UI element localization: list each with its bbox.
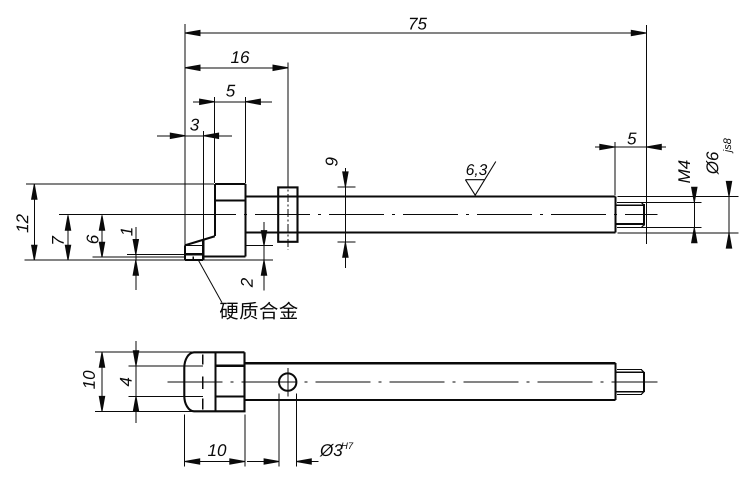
thread chamfer top — [641, 202, 644, 205]
surface finish symbol 6,3 — [465, 162, 495, 196]
text 5 thread — [627, 133, 636, 145]
disc Oe9 outline — [278, 187, 297, 241]
plan block edge top — [216, 365, 245, 367]
thread end face — [643, 204, 645, 225]
main shaft centerline — [181, 214, 658, 216]
thread major line bottom / M4 extension — [617, 227, 702, 229]
head body bottom edge — [203, 255, 245, 257]
text 6,3 roughness — [467, 164, 488, 177]
plan thread chamfer bottom — [641, 391, 644, 394]
extension line dim 2 top — [247, 245, 274, 247]
shaft top edge — [245, 195, 615, 197]
text 75 — [410, 18, 427, 30]
text diameter 6 js8 — [706, 152, 719, 175]
plan hidden insert edge dash 2 — [202, 377, 204, 390]
plan view head outline — [184, 352, 244, 411]
carbide insert middle tick — [192, 256, 194, 260]
dimension diameter 3 H7 — [247, 461, 279, 463]
plan ext head length left — [184, 415, 186, 467]
plan ext dim 10 bottom — [95, 410, 193, 412]
diameter 6 extension line top — [618, 195, 739, 197]
extension line dim 9 bottom — [338, 241, 356, 243]
foot left edge — [184, 245, 186, 260]
plan ext dim 4 bottom — [129, 395, 204, 397]
text 4 — [120, 378, 132, 387]
plan shaft bottom edge — [245, 399, 616, 401]
text M4 — [678, 160, 690, 182]
dimension 2 — [263, 222, 265, 291]
extension line insert top left — [127, 254, 185, 256]
foot top edge — [185, 244, 203, 246]
main shaft centerline solid lead — [59, 214, 181, 216]
dimension 3 — [157, 135, 232, 137]
extension line thread dim 5 left — [614, 142, 616, 195]
thread chamfer bottom — [641, 225, 644, 228]
text 16 — [231, 51, 249, 63]
head clamp block top edge — [215, 183, 246, 185]
text 10 plan height — [83, 371, 95, 389]
plan thread root top — [617, 371, 644, 373]
text 6 — [87, 235, 99, 244]
head right face — [244, 184, 246, 257]
diameter 6 extension line bottom — [618, 232, 739, 234]
plan ext dim 10 top — [95, 351, 193, 353]
plan ext hole right — [295, 394, 297, 467]
text diameter 3 H7 — [320, 444, 343, 457]
label: carbide (ying zhi he jin) — [220, 302, 298, 320]
dimension 12 — [33, 184, 35, 260]
foot right edge — [202, 240, 204, 260]
plan centerline — [168, 381, 658, 383]
dimension 10 head length — [185, 461, 245, 463]
plan ext dim 4 top — [129, 365, 204, 367]
disc vertical centerline — [287, 179, 289, 250]
plan head step edge — [215, 352, 217, 411]
extension line body bottom — [93, 256, 186, 258]
dimension 4 — [135, 341, 137, 423]
text 2 — [241, 278, 253, 287]
plan thread major bottom — [617, 394, 642, 396]
extension line dim 9 top — [338, 186, 356, 188]
extension line left datum x=185 — [184, 24, 186, 245]
text 12 — [16, 214, 28, 232]
plan thread root bottom — [617, 391, 644, 393]
plan thread chamfer top — [641, 370, 644, 373]
extension line 75 right — [645, 25, 647, 244]
dimension 5 (block) — [193, 101, 272, 103]
plan ext hole left — [278, 394, 280, 467]
text 1 — [121, 228, 133, 236]
plan thread major top — [617, 369, 642, 371]
extension line 16 right — [287, 63, 289, 180]
dimension 10 head width — [101, 352, 103, 411]
plan shaft shoulder — [615, 363, 617, 400]
dimension 6 — [101, 215, 103, 257]
leader line to carbide insert — [199, 261, 222, 303]
carbide insert top edge — [185, 253, 203, 255]
hole vertical centerline — [287, 368, 289, 396]
text 5 block — [226, 85, 235, 97]
head left edge — [214, 184, 216, 236]
dimension 75 — [185, 32, 646, 34]
thread root line top — [617, 204, 644, 206]
text 10 head length — [208, 444, 226, 456]
head chisel diagonal edge — [185, 236, 215, 245]
dimension M4 — [693, 188, 695, 243]
extension line insert bottom datum — [25, 259, 274, 261]
thread major line top / M4 extension — [617, 201, 702, 203]
dimension 9 — [344, 168, 346, 268]
clamp block bottom edge — [215, 199, 246, 201]
plan shaft top edge — [245, 362, 616, 364]
extension line dim 3 right — [202, 131, 204, 241]
extension line dim 12 top — [26, 183, 214, 185]
dimension 7 — [67, 215, 69, 260]
plan ext head length right — [244, 415, 246, 467]
plan block edge bottom — [216, 395, 245, 397]
plan hidden insert edge dash 1 — [202, 355, 204, 365]
thread root line bottom — [617, 223, 644, 225]
dimension 16 — [185, 67, 288, 69]
text 9 — [326, 157, 338, 166]
text 3 — [190, 119, 199, 131]
shaft bottom edge — [245, 232, 615, 234]
plan hidden insert edge dash 3 — [202, 399, 204, 410]
extension line dim 5 left — [214, 97, 216, 183]
carbide insert bottom edge — [185, 259, 203, 261]
plan thread end face — [643, 372, 645, 392]
shaft end shoulder — [615, 196, 617, 232]
text 7 — [52, 236, 64, 244]
dimension 1 — [135, 227, 137, 290]
extension line dim 5 right — [244, 97, 246, 183]
dimension 5 (thread) — [595, 146, 666, 148]
plan hole dia3 H7 — [279, 373, 296, 390]
dimension diameter 6 js8 — [728, 185, 730, 245]
